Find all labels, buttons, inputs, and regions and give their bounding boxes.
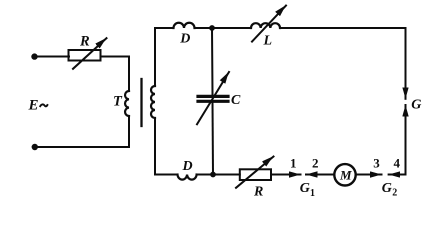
wire	[128, 116, 130, 147]
svg-text:E: E	[28, 98, 39, 114]
transformer core	[140, 79, 142, 126]
resistor R2 arrow	[236, 157, 274, 188]
svg-text:3: 3	[373, 156, 380, 171]
transformer T secondary winding	[151, 86, 155, 118]
inductor D (bottom)	[178, 175, 197, 180]
terminal dot bottom-left	[32, 144, 38, 150]
node dot (bottom junction)	[210, 172, 216, 178]
wire from meter with left arrow (gap G1)	[306, 174, 334, 176]
capacitor C arrow	[197, 72, 229, 124]
wire (left side of loop, bottom)	[154, 118, 156, 175]
svg-text:4: 4	[394, 156, 401, 171]
inductor L arrow	[252, 6, 286, 42]
svg-text:M: M	[339, 168, 352, 183]
wire (right side upper) with down arrow	[405, 28, 407, 99]
wire from resistor with right arrow (gap G1)	[271, 174, 301, 176]
terminal dot top-left	[31, 53, 37, 59]
wire	[195, 27, 252, 29]
wire	[197, 174, 240, 176]
svg-text:2: 2	[312, 156, 319, 171]
wire (right side lower) with up arrow (gap G)	[405, 105, 407, 175]
svg-text:1: 1	[310, 188, 315, 199]
node dot (top junction)	[209, 25, 215, 31]
svg-text:G: G	[300, 181, 310, 196]
resistor R2 (variable) box	[240, 169, 271, 180]
svg-text:1: 1	[290, 156, 297, 171]
wire (left side of loop, top)	[155, 28, 174, 86]
wire	[155, 174, 178, 176]
svg-text:D: D	[179, 32, 190, 47]
svg-text:L: L	[263, 34, 273, 49]
wire from meter with right arrow (gap G2)	[356, 174, 382, 176]
capacitor C plate top	[198, 95, 228, 98]
transformer T primary winding	[125, 91, 129, 116]
svg-text:G: G	[411, 98, 421, 113]
resistor R1 arrow	[73, 38, 107, 69]
svg-text:D: D	[182, 159, 193, 174]
svg-text:R: R	[253, 184, 263, 199]
inductor L (variable)	[251, 23, 280, 28]
capacitor C wire (lower)	[212, 102, 215, 175]
svg-text:R: R	[79, 33, 90, 49]
meter M circle	[334, 164, 355, 185]
inductor D (top)	[174, 23, 195, 28]
svg-text:2: 2	[392, 188, 397, 199]
wire	[35, 56, 70, 58]
resistor R1 (variable) box	[69, 50, 101, 61]
svg-text:C: C	[231, 93, 241, 108]
wire	[280, 27, 406, 29]
capacitor C wire (upper)	[211, 28, 214, 94]
wire	[35, 146, 129, 148]
capacitor C plate bottom	[198, 100, 228, 103]
svg-text:T: T	[113, 94, 123, 110]
wire from bottom-right corner with left arrow (gap G2)	[389, 174, 406, 176]
wire	[101, 57, 129, 92]
svg-text:G: G	[382, 181, 392, 196]
